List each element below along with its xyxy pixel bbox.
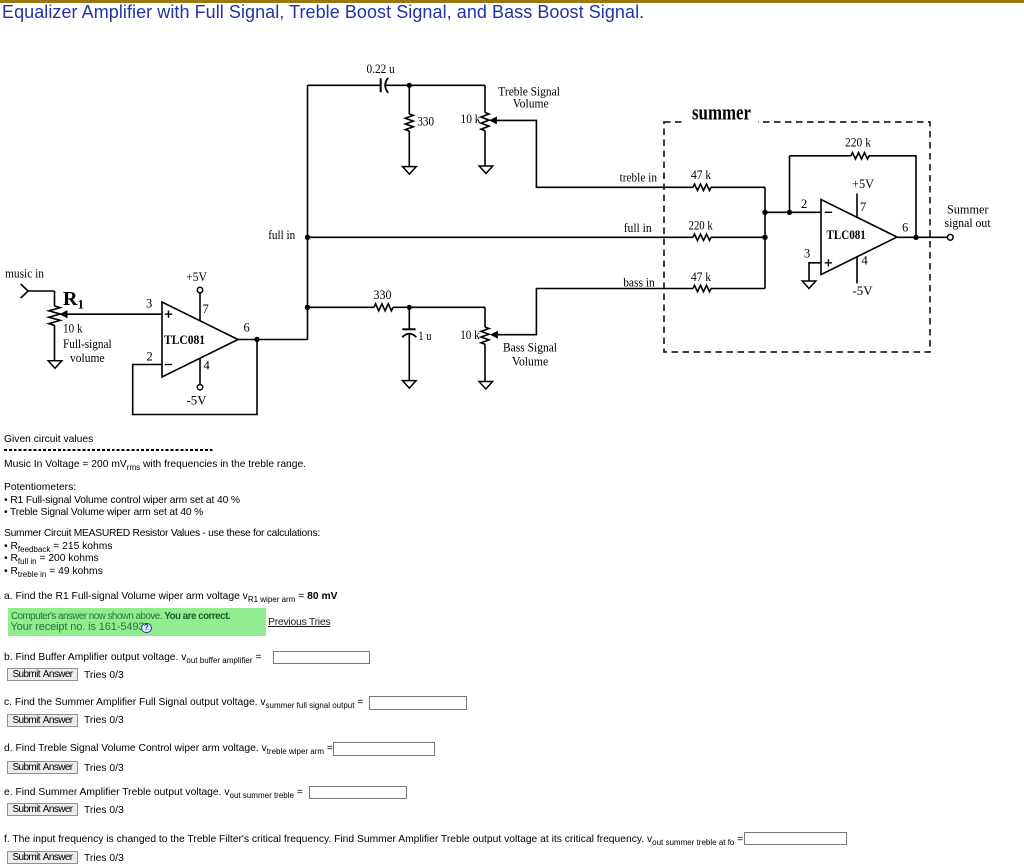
svg-text:+5V: +5V: [186, 270, 207, 284]
svg-text:330: 330: [374, 288, 392, 302]
svg-text:+5V: +5V: [852, 177, 874, 191]
svg-text:10 k: 10 k: [461, 112, 482, 126]
svg-text:3: 3: [146, 297, 152, 311]
svg-text:Bass Signal: Bass Signal: [503, 341, 557, 355]
svg-text:47 k: 47 k: [691, 168, 712, 182]
svg-text:220 k: 220 k: [845, 136, 872, 150]
svg-text:volume: volume: [70, 350, 105, 365]
svg-text:Summer: Summer: [947, 203, 989, 217]
svg-text:4: 4: [204, 359, 211, 373]
svg-text:Volume: Volume: [512, 355, 549, 369]
svg-text:-5V: -5V: [853, 284, 873, 298]
svg-text:Volume: Volume: [513, 97, 549, 111]
svg-text:TLC081: TLC081: [827, 228, 866, 242]
svg-text:signal out: signal out: [945, 216, 992, 230]
svg-text:0.22 u: 0.22 u: [367, 62, 396, 76]
svg-text:bass in: bass in: [623, 276, 655, 290]
svg-text:330: 330: [417, 115, 434, 129]
svg-text:7: 7: [860, 200, 866, 214]
svg-text:220 k: 220 k: [689, 219, 714, 233]
svg-text:2: 2: [801, 197, 807, 211]
svg-text:3: 3: [804, 247, 810, 261]
svg-text:R1: R1: [63, 288, 84, 312]
svg-text:TLC081: TLC081: [164, 333, 205, 347]
svg-text:2: 2: [147, 350, 153, 364]
svg-text:summer: summer: [692, 100, 751, 125]
svg-text:full in: full in: [624, 221, 653, 235]
svg-text:47 k: 47 k: [691, 270, 712, 284]
svg-text:Full-signal: Full-signal: [63, 336, 112, 351]
svg-text:music in: music in: [5, 266, 44, 281]
svg-text:full in: full in: [268, 228, 296, 242]
svg-text:6: 6: [902, 221, 908, 235]
svg-text:4: 4: [862, 254, 869, 268]
svg-text:1 u: 1 u: [418, 329, 432, 343]
svg-text:10 k: 10 k: [460, 328, 480, 342]
svg-text:-5V: -5V: [187, 394, 207, 408]
svg-text:7: 7: [203, 302, 209, 316]
svg-text:6: 6: [244, 321, 250, 335]
svg-text:10 k: 10 k: [63, 321, 83, 336]
svg-text:treble in: treble in: [620, 171, 658, 185]
